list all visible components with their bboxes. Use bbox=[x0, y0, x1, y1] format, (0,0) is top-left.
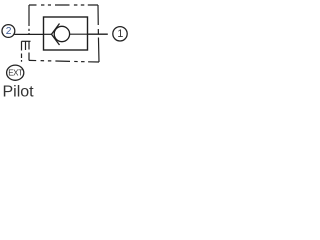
pilot jog bar bbox=[22, 40, 31, 42]
wire port2 line bbox=[15, 33, 44, 35]
pilot boundary left edge (dash-dot) bbox=[28, 5, 30, 61]
wire check valve left stub bbox=[44, 33, 52, 35]
wire port1 line bbox=[88, 33, 108, 35]
port 1 symbol bbox=[113, 27, 127, 41]
wire check valve right stub bbox=[70, 33, 88, 35]
pilot piston leg bbox=[25, 41, 27, 50]
pilot boundary bottom edge (dash-dot) bbox=[29, 60, 99, 62]
EXT pilot port bbox=[7, 65, 24, 80]
valve body U1 bbox=[44, 17, 88, 50]
port 2 symbol bbox=[2, 25, 15, 38]
pilot boundary right edge (dash-dot) bbox=[98, 5, 99, 62]
pilot riser wire (dashed) bbox=[21, 41, 23, 62]
svg-text:1: 1 bbox=[117, 28, 123, 40]
check valve seat bbox=[52, 24, 60, 46]
pilot boundary top edge (dash-dot) bbox=[29, 4, 98, 6]
svg-text:EXT: EXT bbox=[8, 69, 23, 78]
check valve poppet circle bbox=[54, 26, 69, 41]
svg-text:Pilot: Pilot bbox=[3, 84, 35, 101]
svg-text:2: 2 bbox=[6, 26, 12, 37]
